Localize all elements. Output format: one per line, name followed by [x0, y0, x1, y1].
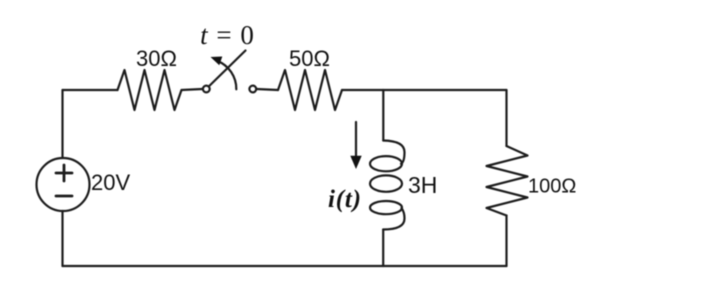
voltage source plus sign [56, 165, 72, 181]
wire resistor to switch left contact [182, 89, 203, 90]
inductor loop 1 [370, 156, 402, 171]
wire top rail right segment (through node to right corner) [342, 89, 507, 91]
wire right branch upper lead [505, 90, 507, 146]
svg-text:30Ω: 30Ω [136, 46, 177, 71]
voltage source V1 circle [37, 158, 90, 211]
switch right contact [249, 86, 256, 93]
current arrow i(t) shaft [355, 122, 357, 158]
wire inductor branch upper lead [382, 90, 384, 141]
svg-text:50Ω: 50Ω [289, 46, 330, 71]
switch motion arc [217, 61, 236, 90]
switch blade [210, 51, 246, 86]
wire left vertical bottom (source to bottom rail) [61, 211, 63, 266]
svg-text:20V: 20V [91, 170, 130, 195]
inductor loop 3 [370, 201, 402, 214]
switch arc arrowhead [211, 57, 223, 66]
inductor top hook [383, 141, 404, 164]
resistor 50ohm [278, 70, 342, 110]
svg-text:t = 0: t = 0 [200, 20, 255, 50]
svg-text:100Ω: 100Ω [528, 176, 576, 198]
resistor 30ohm [118, 70, 182, 110]
voltage source minus sign [56, 195, 72, 198]
wire right branch lower lead [505, 216, 507, 267]
wire switch right contact to 50ohm [256, 89, 278, 90]
svg-text:3H: 3H [408, 172, 437, 198]
wire inductor branch lower lead [382, 230, 384, 267]
switch left contact [203, 86, 210, 93]
resistor 100ohm [487, 146, 528, 216]
wire left vertical top (source to top rail) [61, 90, 63, 158]
wire bottom rail [63, 265, 507, 267]
inductor loop 2 [370, 175, 402, 191]
wire top rail left segment [63, 89, 118, 91]
inductor bottom hook [383, 208, 404, 230]
current arrow head [350, 156, 361, 169]
svg-text:i(t): i(t) [328, 186, 362, 213]
